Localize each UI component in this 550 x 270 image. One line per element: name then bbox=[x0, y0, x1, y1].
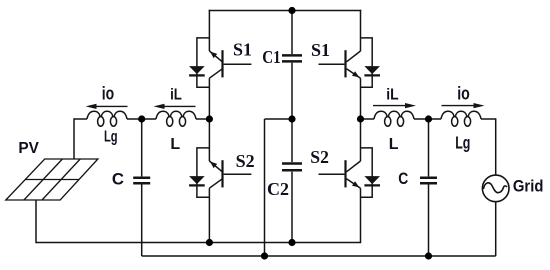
svg-text:L: L bbox=[170, 136, 180, 153]
svg-text:C: C bbox=[398, 169, 408, 188]
svg-text:Grid: Grid bbox=[513, 176, 544, 195]
svg-text:S2: S2 bbox=[236, 151, 255, 171]
svg-text:S1: S1 bbox=[233, 40, 252, 60]
svg-text:Lg: Lg bbox=[104, 128, 118, 145]
svg-text:C2: C2 bbox=[267, 179, 289, 199]
svg-text:Lg: Lg bbox=[455, 132, 470, 152]
svg-text:L: L bbox=[389, 136, 399, 153]
svg-text:iL: iL bbox=[170, 87, 182, 104]
svg-text:iL: iL bbox=[386, 86, 399, 103]
svg-text:S1: S1 bbox=[311, 40, 330, 60]
svg-text:io: io bbox=[457, 83, 470, 103]
svg-text:io: io bbox=[102, 83, 114, 103]
svg-text:S2: S2 bbox=[310, 147, 329, 167]
svg-text:PV: PV bbox=[18, 140, 39, 157]
svg-text:C: C bbox=[112, 170, 124, 189]
svg-text:C1: C1 bbox=[262, 47, 281, 67]
